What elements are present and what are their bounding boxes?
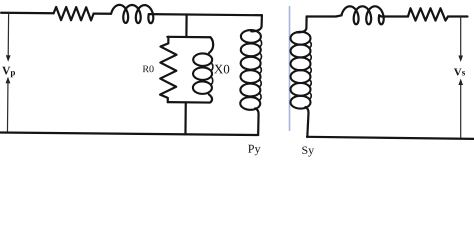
- wire Vp line upper: [7, 13, 9, 57]
- winding Sy (secondary winding): [297, 17, 307, 33]
- resistor R0 (core-loss resistance): [160, 37, 177, 102]
- wire: [94, 13, 111, 15]
- resistor R1 (primary series resistance): [54, 7, 94, 20]
- wire bottom-right: [307, 137, 474, 139]
- wire secondary top: [307, 15, 336, 17]
- arrowhead down Vs: [458, 56, 463, 63]
- arrowhead down Vp: [6, 55, 11, 62]
- arrowhead up Vp: [6, 77, 11, 84]
- wire top to winding Py: [149, 14, 262, 15]
- wire top-left: [1, 12, 53, 15]
- svg-text:R0: R0: [142, 64, 154, 75]
- inductor L1 (primary leakage reactance): [111, 5, 153, 23]
- wire: [379, 15, 408, 16]
- svg-text:Vs: Vs: [454, 66, 466, 78]
- wire junction to magnetizing branch: [185, 15, 187, 37]
- wire Vs line lower: [460, 84, 462, 138]
- wire bottom-left: [0, 133, 258, 135]
- wire top-right: [448, 15, 468, 17]
- winding Py (primary winding): [251, 15, 262, 31]
- transformer core separator: [289, 6, 291, 131]
- svg-text:Py: Py: [248, 142, 261, 156]
- transformer equivalent circuit schematic: [0, 0, 474, 157]
- svg-text:X0: X0: [214, 61, 230, 76]
- svg-text:Sy: Sy: [302, 143, 315, 157]
- wire box to bottom wire: [184, 102, 187, 134]
- inductor L2 (secondary leakage reactance): [336, 15, 342, 16]
- wire shunt box top bar: [167, 36, 210, 39]
- wire shunt box bottom bar: [168, 101, 210, 104]
- svg-text:Vp: Vp: [2, 65, 15, 77]
- wire Vs line upper: [460, 17, 462, 58]
- resistor R2 (secondary series resistance): [408, 8, 448, 20]
- arrowhead up Vs: [458, 79, 463, 86]
- inductor X0 (magnetizing reactance): [209, 37, 213, 53]
- wire Vp line lower: [6, 82, 8, 133]
